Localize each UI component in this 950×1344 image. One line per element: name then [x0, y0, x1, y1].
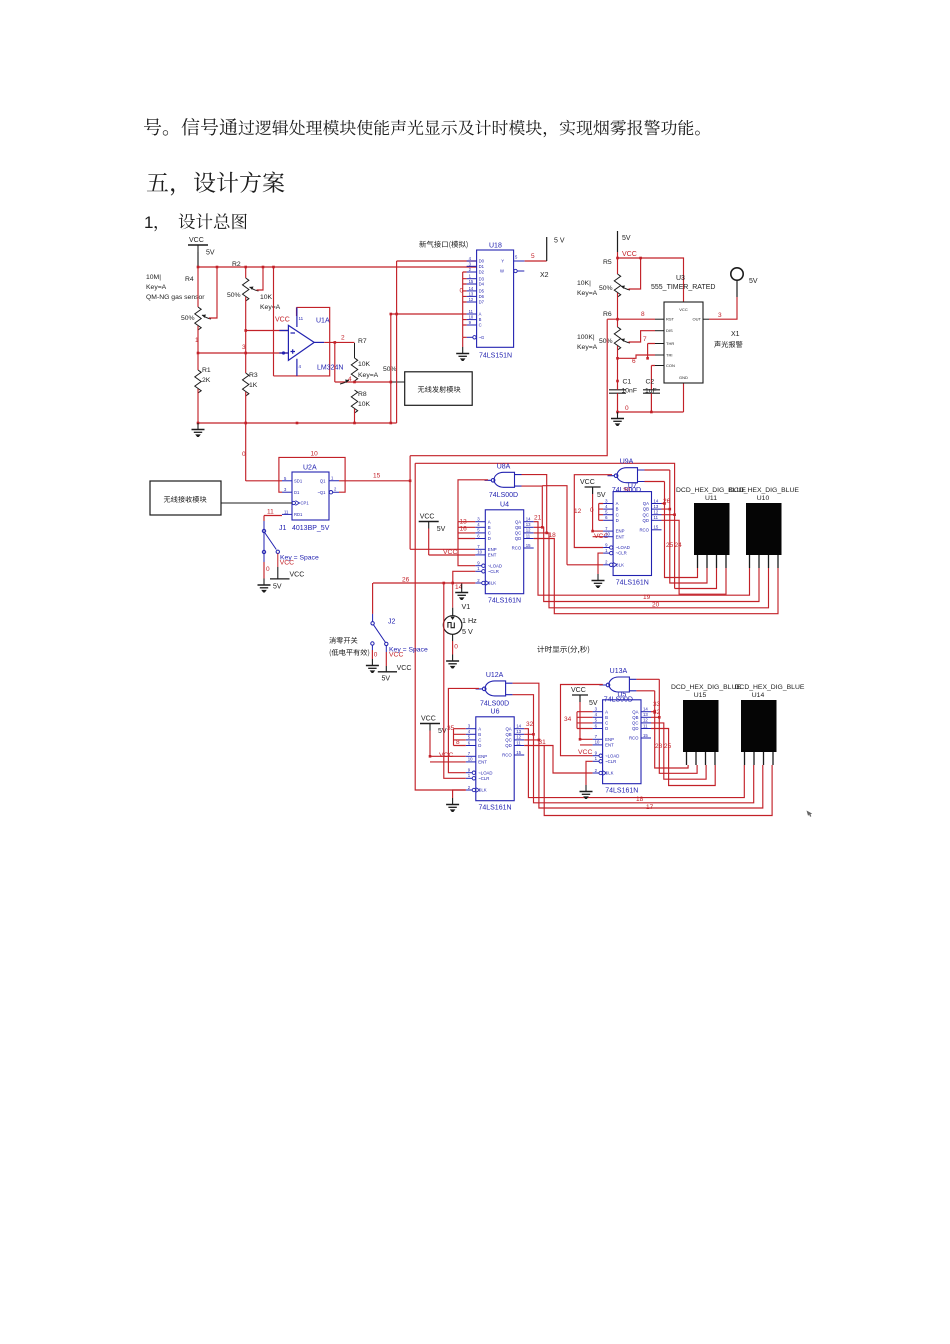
wire net6 to TRI [618, 355, 656, 358]
svg-text:9: 9 [595, 751, 598, 756]
svg-text:VCC: VCC [439, 752, 453, 759]
svg-text:C: C [478, 738, 481, 743]
wire R4 bottom lead [197, 326, 199, 353]
svg-text:QC: QC [632, 721, 638, 726]
svg-text:17: 17 [646, 804, 654, 811]
svg-text:4013BP_5V: 4013BP_5V [292, 525, 330, 532]
svg-text:5V: 5V [273, 584, 282, 591]
svg-text:U12A: U12A [486, 672, 504, 679]
svg-text:50%: 50% [599, 338, 613, 345]
heading line [147, 173, 174, 196]
label wireless transmit [418, 386, 461, 393]
svg-text:5: 5 [468, 735, 471, 740]
svg-text:24: 24 [675, 542, 683, 549]
wire R6 wiper to DIS [629, 331, 656, 342]
svg-text:5V: 5V [438, 728, 447, 735]
svg-text:100K|: 100K| [577, 334, 595, 341]
svg-text:5V: 5V [206, 250, 215, 257]
svg-text:U6: U6 [491, 708, 500, 715]
wire divider to opamp minus [246, 330, 288, 332]
svg-text:9: 9 [605, 542, 608, 547]
wire VCC U4 to ENT [429, 529, 476, 556]
svg-text:26: 26 [402, 577, 410, 584]
potentiometer R4 gas sensor [195, 307, 201, 330]
svg-text:QB: QB [643, 507, 649, 512]
wire U7 preset ties [599, 504, 603, 521]
label analog port [419, 241, 467, 249]
svg-text:2: 2 [469, 267, 472, 272]
svg-text:D3: D3 [479, 276, 485, 281]
svg-text:10: 10 [468, 757, 473, 762]
svg-text:26: 26 [663, 498, 671, 505]
svg-text:5: 5 [284, 476, 287, 481]
wire U9A in2 [645, 481, 665, 483]
svg-text:~G: ~G [479, 335, 485, 340]
svg-text:D: D [605, 726, 608, 731]
svg-text:5V: 5V [437, 526, 446, 533]
svg-text:D: D [478, 743, 481, 748]
nand U13A 74LS00D [599, 677, 636, 692]
wire U13A in1 [636, 678, 659, 680]
svg-text:U7: U7 [628, 483, 637, 490]
svg-text:ENT: ENT [616, 534, 625, 539]
svg-text:1: 1 [469, 274, 472, 279]
svg-text:ENP: ENP [488, 547, 497, 552]
svg-text:5V: 5V [622, 235, 631, 242]
wire R4 wiper to rail [209, 267, 217, 318]
nand U9A 74LS00D [608, 468, 645, 483]
svg-text:C: C [488, 531, 491, 536]
svg-text:GND: GND [679, 375, 688, 380]
svg-text:15: 15 [526, 543, 531, 548]
wire U2A Q output net15 [339, 480, 410, 482]
svg-text:CP1: CP1 [301, 501, 310, 506]
svg-text:2: 2 [595, 768, 598, 773]
svg-text:CON: CON [666, 363, 675, 368]
svg-text:C: C [479, 323, 482, 328]
svg-text:13: 13 [643, 712, 648, 717]
svg-text:12: 12 [574, 508, 582, 515]
svg-text:U18: U18 [489, 243, 502, 250]
wire R6 bottom [617, 346, 619, 381]
cursor arrow [805, 809, 813, 818]
svg-text:DCD_HEX_DIG_BLUE: DCD_HEX_DIG_BLUE [729, 487, 799, 494]
svg-text:18: 18 [636, 796, 644, 803]
flip-flop U2A 4013BP_5V [279, 465, 339, 533]
wire U5 QA to U15 [651, 691, 688, 768]
svg-text:4: 4 [595, 712, 598, 717]
svg-text:1 Hz: 1 Hz [462, 616, 477, 625]
svg-text:74LS161N: 74LS161N [616, 580, 649, 587]
svg-text:14: 14 [654, 498, 659, 503]
svg-text:4: 4 [477, 522, 480, 527]
svg-text:ENT: ENT [478, 760, 487, 765]
svg-text:50%: 50% [383, 366, 397, 373]
box wireless transmit module [405, 372, 473, 406]
svg-text:D7: D7 [479, 300, 485, 305]
wire vertical net5 top [396, 261, 398, 314]
svg-text:B: B [616, 507, 619, 512]
potentiometer R7 [351, 358, 357, 381]
wire vertical opamp-to-A [390, 314, 392, 423]
counter U4 74LS161N [475, 501, 533, 604]
wire V1 bottom [452, 641, 454, 655]
VCC bar J2 [385, 666, 387, 672]
label timing display [537, 646, 589, 654]
svg-text:10K: 10K [358, 401, 371, 408]
svg-text:U8A: U8A [497, 463, 511, 470]
svg-text:C: C [605, 721, 608, 726]
paragraph part2 [239, 120, 700, 138]
svg-text:11: 11 [654, 515, 659, 520]
svg-text:C: C [616, 512, 619, 517]
ground 555 [611, 412, 624, 421]
svg-text:VCC: VCC [443, 549, 457, 556]
wire R7 wiper node to vertical [355, 381, 391, 383]
svg-text:13: 13 [516, 729, 521, 734]
wire U9A in1 [645, 469, 670, 471]
svg-text:11: 11 [299, 316, 304, 321]
svg-text:25: 25 [666, 542, 674, 549]
svg-text:U10: U10 [757, 495, 770, 502]
svg-text:2: 2 [341, 335, 345, 342]
wire U12A in1 [513, 683, 539, 740]
wire U4 clr stub [453, 571, 476, 583]
svg-text:VCC: VCC [421, 716, 436, 723]
wire THR tie [648, 344, 655, 359]
svg-text:RCO: RCO [629, 736, 639, 741]
display U14 [735, 684, 805, 765]
svg-text:D0: D0 [479, 259, 485, 264]
box wireless receive module [150, 481, 221, 515]
wire U13A in2 [636, 690, 654, 692]
VCC U4 [419, 514, 446, 534]
svg-text:DCD_HEX_DIG_BLUE: DCD_HEX_DIG_BLUE [671, 684, 741, 691]
wire C1 top lead [617, 381, 619, 385]
svg-text:D6: D6 [479, 294, 485, 299]
svg-text:U13A: U13A [610, 668, 628, 675]
VCC U6 [420, 716, 447, 736]
timer U3 555_TIMER_RATED [651, 275, 715, 383]
wire CON down to C2 top [650, 384, 652, 386]
wire J1 to RD1 [264, 516, 282, 522]
svg-text:7: 7 [477, 544, 480, 549]
svg-text:~CLR: ~CLR [488, 569, 499, 574]
svg-text:10: 10 [595, 740, 600, 745]
wire 555 vcc rail [618, 252, 684, 302]
svg-text:10: 10 [605, 532, 610, 537]
svg-text:10K|: 10K| [577, 280, 591, 287]
wire U6 clr via V1 net [444, 583, 466, 778]
svg-text:D1: D1 [294, 490, 300, 495]
wire R4 top lead [197, 267, 199, 307]
svg-text:QC: QC [515, 531, 521, 536]
svg-text:11: 11 [267, 509, 274, 516]
svg-text:D1: D1 [479, 264, 485, 269]
svg-text:10: 10 [469, 315, 474, 320]
svg-text:ENP: ENP [478, 754, 487, 759]
svg-text:U14: U14 [752, 692, 765, 699]
wire node4 to tx box [391, 381, 405, 383]
wire U8A in2 [522, 486, 543, 527]
wire bottom rail left [198, 422, 397, 424]
svg-text:9: 9 [469, 320, 472, 325]
wire U4 QB bus [534, 527, 759, 601]
wire rail to U18 pin1 [397, 260, 477, 262]
ground U6 [446, 798, 459, 807]
svg-text:20: 20 [652, 602, 660, 609]
svg-text:QA: QA [505, 726, 511, 731]
svg-text:QB: QB [505, 732, 511, 737]
svg-text:ENP: ENP [616, 529, 625, 534]
svg-text:0: 0 [590, 507, 594, 514]
ground V1 [446, 655, 459, 664]
svg-text:0: 0 [242, 451, 246, 458]
wire net8 to RST [607, 318, 655, 320]
wire U6 gnd stub [453, 790, 466, 798]
svg-text:50%: 50% [227, 292, 241, 299]
wire OUT to X1 [709, 297, 737, 319]
svg-text:5V: 5V [749, 278, 758, 285]
svg-text:Key=A: Key=A [577, 290, 598, 297]
svg-text:OUT: OUT [693, 317, 702, 322]
svg-text:U15: U15 [694, 692, 707, 699]
svg-text:13: 13 [526, 522, 531, 527]
svg-text:VCC: VCC [389, 651, 403, 658]
display U10 [729, 487, 799, 568]
svg-text:QD: QD [515, 536, 521, 541]
svg-text:11: 11 [469, 309, 474, 314]
svg-text:74LS00D: 74LS00D [489, 492, 518, 499]
multiplexer U18 74LS151N [467, 243, 525, 360]
svg-text:Key=A: Key=A [146, 284, 167, 291]
svg-text:ENP: ENP [605, 737, 614, 742]
svg-text:VCC: VCC [290, 572, 305, 579]
svg-text:1: 1 [468, 773, 471, 778]
list comma [154, 226, 157, 231]
svg-text:50%: 50% [599, 285, 613, 292]
svg-text:6: 6 [632, 358, 636, 365]
svg-text:A: A [616, 501, 619, 506]
svg-text:13: 13 [654, 504, 659, 509]
svg-text:10K: 10K [260, 294, 273, 301]
wire R5 to R6 [617, 293, 619, 327]
capacitor C2 1uF [643, 385, 660, 413]
svg-text:74LS151N: 74LS151N [479, 353, 512, 360]
wire U5 QC to U15 [651, 723, 706, 779]
svg-text:DCD_HEX_DIG_BLUE: DCD_HEX_DIG_BLUE [735, 684, 805, 691]
wire U12A out to load [448, 688, 479, 772]
svg-text:SD1: SD1 [294, 478, 303, 483]
wire VCC U6 to ENP [430, 731, 466, 762]
wire R1 bottom lead [197, 389, 199, 423]
potentiometer R5 [614, 274, 620, 297]
svg-text:A: A [605, 709, 608, 714]
wire R2 top lead [245, 267, 247, 278]
label clear switch 2 [330, 649, 370, 657]
svg-text:VCC: VCC [280, 560, 294, 567]
wire J2 left to gnd [371, 650, 373, 659]
potentiometer R2 [243, 278, 249, 301]
nand U8A 74LS00D [485, 472, 522, 487]
svg-text:34: 34 [564, 716, 572, 723]
svg-text:D5: D5 [479, 289, 485, 294]
wire U7 clr stub [598, 553, 603, 574]
svg-text:3: 3 [242, 344, 246, 351]
svg-text:12: 12 [643, 718, 648, 723]
svg-text:VCC: VCC [622, 251, 637, 258]
wire U6 QA bus [524, 729, 744, 798]
resistor R1 2K [195, 370, 201, 393]
svg-text:28: 28 [655, 743, 663, 750]
svg-text:A: A [478, 726, 481, 731]
svg-text:~LOAD: ~LOAD [616, 545, 630, 550]
svg-text:16: 16 [460, 526, 468, 533]
svg-text:7: 7 [468, 751, 471, 756]
svg-text:QA: QA [515, 519, 521, 524]
label sound-light alarm [714, 341, 742, 348]
wire U5 QD to U15 [651, 729, 715, 786]
svg-text:Key=A: Key=A [358, 372, 379, 379]
svg-text:6: 6 [605, 515, 608, 520]
wire U18 tie to ground [462, 337, 464, 347]
svg-text:5 V: 5 V [462, 627, 473, 636]
wire U5 preset ties [577, 712, 593, 729]
wire U7 QA to U11 [662, 482, 698, 578]
resistor R3 1K [243, 373, 249, 396]
svg-text:THR: THR [666, 341, 674, 346]
svg-text:QD: QD [632, 726, 638, 731]
heading line2 [194, 172, 285, 193]
svg-text:12: 12 [526, 528, 531, 533]
svg-text:~LOAD: ~LOAD [478, 770, 492, 775]
svg-text:2: 2 [468, 785, 471, 790]
svg-text:A: A [488, 519, 491, 524]
counter U6 74LS161N [466, 708, 524, 811]
svg-text:4: 4 [299, 364, 302, 369]
svg-text:VCC: VCC [679, 307, 688, 312]
ground U5 [580, 785, 593, 794]
svg-text:B: B [479, 317, 482, 322]
wire U6 QD bus [524, 746, 772, 816]
svg-text:D2: D2 [479, 270, 485, 275]
ground U4 [455, 586, 468, 595]
svg-text:2: 2 [477, 578, 480, 583]
svg-text:21: 21 [534, 515, 542, 522]
wire U6 QC bus [524, 740, 763, 808]
svg-text:R7: R7 [358, 338, 367, 345]
svg-text:4: 4 [469, 256, 472, 261]
wire U4 preset ties [458, 522, 475, 539]
svg-text:LM324N: LM324N [317, 365, 343, 372]
wire opamp output [324, 341, 354, 343]
svg-text:B: B [488, 525, 491, 530]
switch J1 [262, 521, 279, 562]
svg-text:10: 10 [477, 550, 482, 555]
svg-text:9: 9 [468, 768, 471, 773]
wire U6 QB bus [524, 734, 754, 803]
svg-text:R1: R1 [202, 367, 211, 374]
svg-text:U2A: U2A [303, 465, 317, 472]
svg-text:QA: QA [632, 709, 638, 714]
wire U8A out to load [458, 480, 488, 566]
wire R2 bottom lead [245, 297, 247, 373]
ground below R1 [192, 423, 205, 432]
wire net0 into U2A [246, 480, 282, 482]
svg-text:4: 4 [348, 376, 352, 383]
svg-text:7: 7 [605, 526, 608, 531]
wire R5 wiper up [629, 258, 641, 289]
svg-text:8: 8 [641, 311, 645, 318]
wire U7 clk [542, 486, 603, 565]
svg-text:X2: X2 [540, 272, 549, 279]
svg-text:QB: QB [632, 715, 638, 720]
svg-text:15: 15 [643, 733, 648, 738]
svg-text:5V: 5V [382, 676, 391, 683]
wire U6 preset ties [454, 729, 466, 746]
counter U7 74LS161N [603, 483, 661, 586]
svg-text:U3: U3 [676, 275, 685, 282]
svg-text:ENT: ENT [605, 743, 614, 748]
wire node1 rail to opamp plus [198, 352, 288, 354]
svg-text:R6: R6 [603, 311, 612, 318]
svg-text:74LS161N: 74LS161N [605, 788, 638, 795]
svg-text:1: 1 [595, 756, 598, 761]
svg-text:3: 3 [468, 724, 471, 729]
svg-text:0: 0 [454, 644, 458, 651]
wire rail to opamp vcc [273, 267, 275, 376]
nand U12A 74LS00D [476, 681, 513, 696]
svg-text:~CLR: ~CLR [605, 759, 616, 764]
svg-text:4: 4 [468, 729, 471, 734]
paragraph part1 [144, 118, 238, 136]
svg-text:1K: 1K [249, 382, 258, 389]
wire rail to U18 A pin [391, 313, 467, 315]
svg-text:Q1: Q1 [320, 478, 326, 483]
svg-text:D: D [616, 518, 619, 523]
svg-text:QD: QD [643, 518, 649, 523]
potentiometer R6 [614, 327, 620, 350]
wire R8 bottom lead [354, 409, 356, 423]
svg-text:J2: J2 [388, 619, 396, 626]
wire U5 QB to U15 [651, 679, 697, 773]
wire R3 bottom lead [245, 392, 247, 423]
svg-text:74LS161N: 74LS161N [488, 598, 521, 605]
wire R1 top lead [197, 353, 199, 370]
ground J2 [366, 659, 379, 668]
svg-text:DIS: DIS [666, 328, 673, 333]
svg-text:R8: R8 [358, 391, 367, 398]
svg-text:R5: R5 [603, 259, 612, 266]
wire J1 bottom to gnd [263, 562, 265, 579]
svg-text:11: 11 [284, 509, 289, 514]
svg-text:74LS161N: 74LS161N [478, 805, 511, 812]
wire U7 QC to U11 [662, 515, 717, 589]
svg-text:1: 1 [605, 548, 608, 553]
svg-text:14: 14 [469, 286, 474, 291]
svg-text:VCC: VCC [580, 479, 595, 486]
svg-text:1uF: 1uF [645, 388, 657, 395]
wire U13A out to load [561, 685, 603, 756]
svg-text:5: 5 [531, 253, 535, 260]
buzzer X1 [736, 280, 738, 297]
svg-text:~CLR: ~CLR [478, 776, 489, 781]
svg-text:Y: Y [501, 259, 504, 264]
svg-text:25: 25 [664, 743, 672, 750]
svg-text:QB: QB [515, 525, 521, 530]
svg-text:QD: QD [505, 743, 511, 748]
svg-text:VCC: VCC [397, 665, 412, 672]
